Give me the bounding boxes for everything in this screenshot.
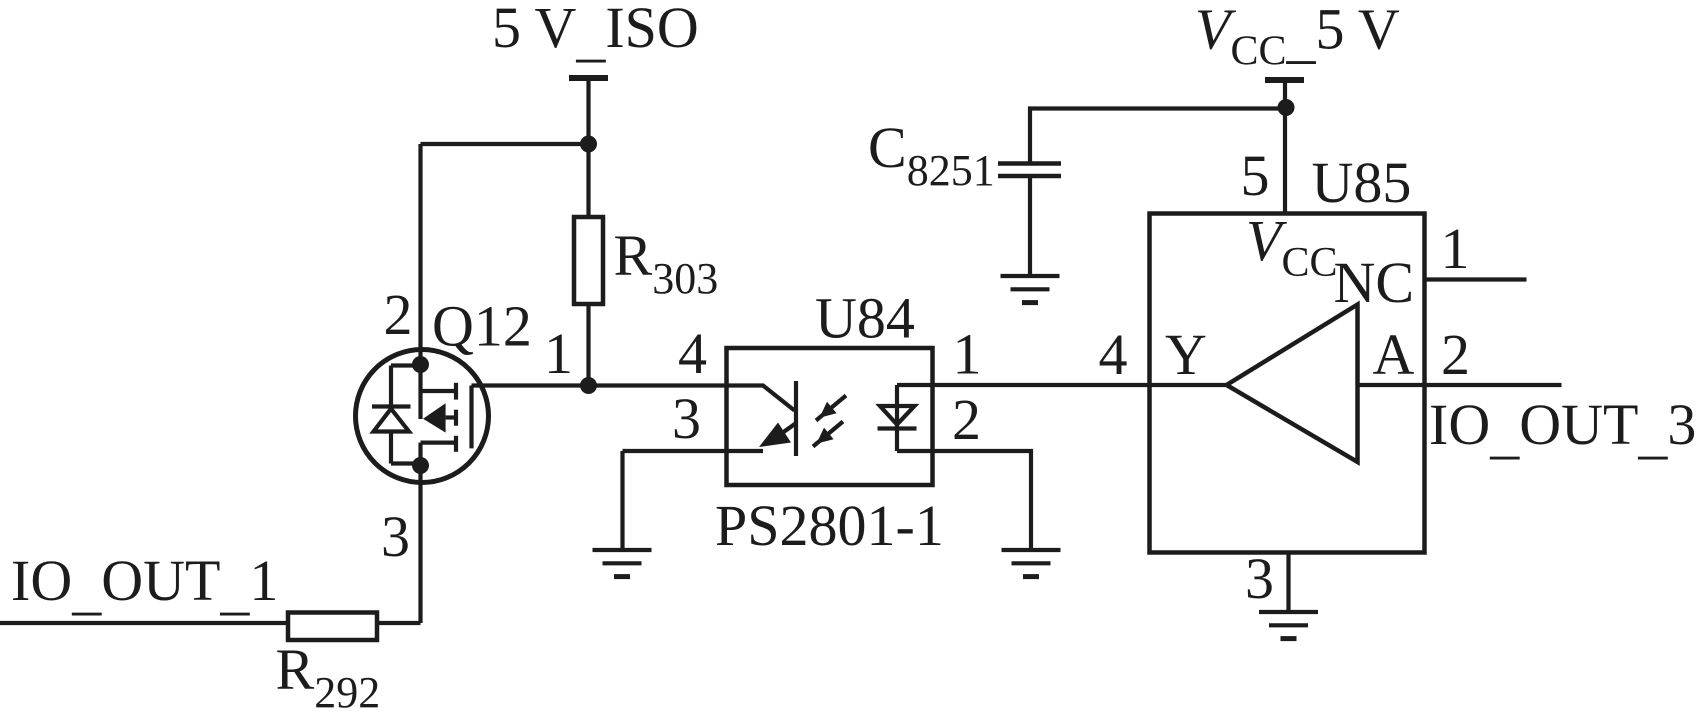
- ground (U84 pin 3): [593, 550, 652, 577]
- svg-text:U84: U84: [815, 286, 915, 351]
- wire gate bus: Q12 gate to U84 pin4: [472, 383, 727, 387]
- U84 emitter wire (pin 3): [623, 449, 764, 453]
- U84 phototransistor emitter line: [773, 424, 796, 440]
- svg-text:3: 3: [672, 386, 701, 451]
- svg-text:2: 2: [952, 387, 981, 452]
- U84 light arrow 1 head: [820, 402, 837, 418]
- capacitor C8251 top wire: [1030, 109, 1286, 162]
- svg-text:5 V_ISO: 5 V_ISO: [492, 0, 699, 68]
- U84 phototransistor base bar: [794, 381, 798, 456]
- power bar VCC_5V: [1265, 77, 1304, 83]
- ground (U84 pin 2): [1002, 550, 1061, 577]
- U84 light arrow 2 shaft: [813, 422, 843, 447]
- svg-text:Y: Y: [1165, 322, 1207, 387]
- node junction C dot: [1278, 99, 1295, 116]
- svg-text:1: 1: [1441, 216, 1470, 281]
- wire A pin 2 to IO_OUT_3: [1358, 383, 1562, 387]
- svg-text:3: 3: [381, 504, 410, 569]
- svg-text:IO_OUT_1: IO_OUT_1: [11, 548, 278, 621]
- node junction B dot: [580, 377, 597, 394]
- U84 light arrow 1 shaft: [816, 396, 846, 421]
- wire R292 to corner: [377, 621, 421, 625]
- U84 phototransistor collector lead: [727, 386, 795, 411]
- Q12 channel top bar: [454, 383, 458, 400]
- wire R303 bottom to junction B: [586, 304, 590, 386]
- svg-text:PS2801-1: PS2801-1: [715, 493, 944, 558]
- Q12 internal drain-source vertical: [418, 365, 422, 420]
- capacitor C8251 bottom wire: [1028, 176, 1032, 276]
- svg-text:4: 4: [678, 321, 707, 386]
- svg-text:IO_OUT_3: IO_OUT_3: [1429, 392, 1696, 465]
- U84 light arrow 2 head: [817, 428, 834, 444]
- Q12 body-diode cathode bar: [372, 404, 411, 408]
- wire junction C down to U85 pin5: [1283, 108, 1287, 214]
- Q12 internal source vertical: [418, 443, 422, 466]
- IC U85 box: [1150, 214, 1425, 553]
- resistor R292 body: [288, 613, 377, 641]
- wire pin3 down to ground: [620, 451, 624, 550]
- wire power bar to junction C: [1283, 80, 1287, 108]
- wire U84 pin2 to ground: [897, 451, 1031, 550]
- svg-text:U85: U85: [1312, 150, 1412, 215]
- Q12 gate bar: [469, 386, 473, 449]
- wire corner up to Q12 source: [418, 466, 422, 624]
- Q12 body-diode anode lead: [389, 432, 393, 464]
- svg-text:5: 5: [1241, 143, 1270, 208]
- Q12 drain terminal dot: [412, 356, 429, 373]
- svg-text:2: 2: [384, 282, 413, 347]
- Q12 source stub: [421, 441, 457, 445]
- svg-text:A: A: [1373, 322, 1415, 387]
- wire down to Q12 drain: [418, 144, 422, 365]
- wire junction A to R303 top: [586, 144, 590, 217]
- Q12 channel middle bar: [454, 410, 458, 426]
- ground (U85 pin 3): [1259, 612, 1318, 639]
- resistor R303 body: [574, 217, 603, 304]
- ground (C8251): [1001, 276, 1060, 303]
- capacitor C8251 plate 2: [998, 174, 1061, 179]
- U84 phototransistor emitter arrowhead: [759, 423, 791, 448]
- wire U85 pin3 to ground: [1286, 553, 1290, 613]
- U84 LED cathode bar: [878, 426, 917, 430]
- Q12 body-diode top link: [391, 363, 421, 367]
- svg-text:4: 4: [1099, 322, 1128, 387]
- Q12 source terminal dot: [412, 457, 429, 474]
- wire junction A to left: [421, 142, 589, 146]
- Q12 body-diode triangle: [374, 409, 410, 432]
- wire IO_OUT_1 to R292: [0, 621, 288, 625]
- wire NC pin 1: [1423, 277, 1527, 281]
- capacitor C8251 plate 1: [998, 161, 1061, 166]
- power bar 5 V_ISO: [569, 75, 608, 81]
- svg-text:3: 3: [1245, 546, 1274, 611]
- svg-text:2: 2: [1441, 322, 1470, 387]
- wire U84 pin1 to U85 pin4 (Y bus): [897, 383, 1227, 387]
- svg-text:1: 1: [544, 321, 573, 386]
- svg-text:Q12: Q12: [432, 294, 532, 359]
- svg-text:1: 1: [953, 322, 982, 387]
- Q12 drain stub: [421, 389, 457, 393]
- Q12 body arrow (filled, pointing left): [423, 403, 446, 432]
- Q12 body-diode cathode lead: [389, 366, 393, 407]
- U84 LED anode lead: [895, 385, 899, 451]
- Q12 channel bottom bar: [454, 436, 458, 452]
- Q12 body-diode bottom link: [391, 461, 421, 465]
- Q12 arrow stub: [446, 415, 456, 419]
- svg-text:NC: NC: [1334, 250, 1415, 315]
- node junction A dot: [580, 136, 597, 153]
- wire power bar to junction: [586, 78, 590, 144]
- optocoupler U84 box: [727, 348, 933, 485]
- U85 buffer triangle: [1227, 305, 1358, 463]
- U84 LED triangle: [880, 406, 915, 425]
- transistor Q12 circle: [356, 350, 489, 483]
